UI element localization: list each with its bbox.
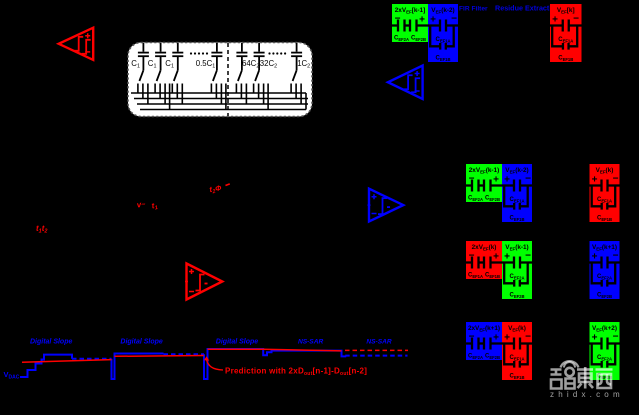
op-amp U2 (FIR-IIR amp, blue) xyxy=(388,66,423,100)
svg-text:CEF2A: CEF2A xyxy=(394,36,409,42)
svg-text:+: + xyxy=(504,333,510,344)
capacitor block row3 blue VEF(k+1) xyxy=(590,241,620,299)
svg-text:Digital Slope: Digital Slope xyxy=(216,339,259,346)
capacitor block row3 green VEF(k-1) xyxy=(502,241,532,299)
svg-text:+: + xyxy=(493,175,499,186)
op-amp U4 (slope amp, red) xyxy=(185,264,222,300)
svg-text:CEF2A: CEF2A xyxy=(468,354,483,360)
svg-text:CEF1B: CEF1B xyxy=(435,56,450,62)
svg-text:CEF1A: CEF1A xyxy=(597,197,612,203)
svg-text:−: − xyxy=(451,14,457,25)
svg-text:+: + xyxy=(592,333,598,344)
svg-text:CEF2A: CEF2A xyxy=(468,196,483,202)
svg-text:+: + xyxy=(493,252,499,263)
svg-text:Digital Slope: Digital Slope xyxy=(120,339,163,346)
svg-text:CEF1B: CEF1B xyxy=(558,56,573,62)
svg-text:NS-SAR: NS-SAR xyxy=(298,339,324,346)
svg-text:CEF1A: CEF1A xyxy=(509,355,524,361)
svg-text:−: − xyxy=(613,251,619,262)
capacitor block row2 green 2xVEF(k-1) xyxy=(466,164,502,202)
capacitor block row4 green VEF(k+2) xyxy=(590,322,620,380)
svg-text:CEF1A: CEF1A xyxy=(558,37,573,43)
svg-text:CEF2A: CEF2A xyxy=(597,355,612,361)
svg-text:CEF1A: CEF1A xyxy=(468,273,483,279)
op-amp U1 (loop filter, red) xyxy=(59,28,93,60)
watermark zhidx logo xyxy=(551,361,613,388)
svg-text:+: + xyxy=(493,333,499,344)
capacitor block row3 red 2xVEF(k) xyxy=(466,241,502,279)
svg-text:+: + xyxy=(552,15,558,26)
red annotation arrow xyxy=(204,356,223,370)
svg-text:CEF1B: CEF1B xyxy=(597,216,612,222)
svg-text:−: − xyxy=(525,332,531,343)
svg-text:+: + xyxy=(419,15,425,26)
svg-text:CEF2B: CEF2B xyxy=(485,354,500,360)
svg-text:CEF1B: CEF1B xyxy=(509,374,524,380)
svg-text:CEF1A: CEF1A xyxy=(509,197,524,203)
svg-text:+: + xyxy=(504,175,510,186)
svg-text:CEF2B: CEF2B xyxy=(509,293,524,299)
capacitor block CEF1 extract (red, VEF[k]) xyxy=(550,4,582,62)
svg-text:CEF1A: CEF1A xyxy=(435,37,450,43)
svg-text:Digital Slope: Digital Slope xyxy=(30,339,73,346)
prediction waveform red trace xyxy=(22,349,408,362)
svg-text:−: − xyxy=(613,332,619,343)
CDAC capacitor array box xyxy=(128,43,312,117)
capacitor block row2 blue VEF(k-2) xyxy=(502,164,532,222)
capacitor block row2 red VEF(k) xyxy=(590,164,620,222)
svg-text:NS-SAR: NS-SAR xyxy=(366,339,392,346)
svg-text:CEF2B: CEF2B xyxy=(597,293,612,299)
svg-text:CEF2A: CEF2A xyxy=(509,274,524,280)
svg-text:+: + xyxy=(592,175,598,186)
svg-text:CEF2A: CEF2A xyxy=(597,274,612,280)
svg-text:FIR Filter: FIR Filter xyxy=(459,6,488,13)
capacitor block row4 red VEF(k) xyxy=(502,322,532,380)
svg-text:−: − xyxy=(613,174,619,185)
svg-text:CEF1B: CEF1B xyxy=(509,216,524,222)
svg-text:−: − xyxy=(573,14,579,25)
svg-text:CEF1B: CEF1B xyxy=(485,273,500,279)
svg-text:CEF2B: CEF2B xyxy=(485,196,500,202)
node label V~t1 xyxy=(136,197,158,214)
capacitor block CEF1 sample (blue, VEF(k-2)) xyxy=(428,4,458,62)
svg-text:CEF2B: CEF2B xyxy=(411,36,426,42)
svg-text:zhidx.com: zhidx.com xyxy=(550,390,624,399)
svg-text:+: + xyxy=(592,252,598,263)
svg-text:−: − xyxy=(525,251,531,262)
node label t2 phi xyxy=(209,182,232,196)
capacitor block CEF2 sample (green, 2xVEF[k-1]) xyxy=(392,4,428,42)
svg-text:+: + xyxy=(504,252,510,263)
VDAC waveform blue trace xyxy=(20,349,408,379)
capacitor block row4 blue 2xVEF(k+1) xyxy=(466,322,502,360)
svg-text:−: − xyxy=(525,174,531,185)
op-amp U3 (prediction amp, blue) xyxy=(368,189,404,222)
svg-text:+: + xyxy=(430,15,436,26)
